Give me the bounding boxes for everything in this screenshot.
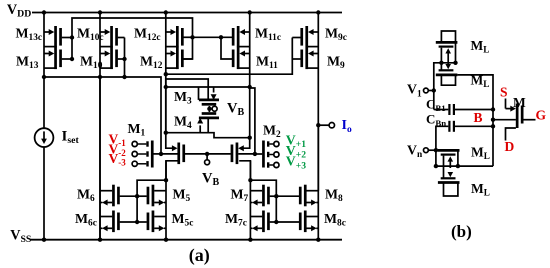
svg-text:V: V [202,171,213,187]
transistor ML2 [436,70,458,75]
junction ML gate row [439,61,443,65]
wire M11 gate drop [221,37,233,59]
terminal Io [329,123,334,128]
junction lower row mid [456,164,460,168]
junction M12c gate [190,35,194,39]
svg-text:(b): (b) [451,222,472,241]
caption (b) [451,222,472,241]
label M5 [173,186,191,204]
terminal VB [205,160,210,165]
junction VDD-M12c [164,10,168,14]
svg-text:8c: 8c [337,219,346,229]
junction Io [316,123,320,127]
transistor M13c [44,26,72,48]
svg-text:10c: 10c [90,33,104,43]
transistor M12c [166,26,183,48]
junction box top left [164,85,168,89]
capacitor CBn [436,121,493,150]
junction VDD-M11c [248,10,252,14]
label M [513,95,526,110]
junction VDD-M9c [316,10,320,14]
multi-input coupling plates M1 bulk [137,141,161,168]
svg-text:7: 7 [244,194,249,204]
wire M3/M4 gate tie [208,106,210,112]
svg-text:M: M [16,53,29,68]
svg-text:M: M [255,26,268,41]
label G [536,108,547,123]
label CBn [426,112,446,129]
transistor M3 [199,100,219,104]
junction VDD-M13c [42,10,46,14]
transistor M9c [292,26,318,48]
junction VSS-M6c [98,238,102,242]
wire ML2 diode loop [441,75,455,85]
junction node B - CBn [491,124,495,128]
label V1 [407,82,422,100]
wire ML3 drain leg [457,150,459,166]
wire Vn stub [428,149,441,151]
transistor M1 [161,143,207,165]
transistor M8c [276,211,318,233]
wire M12 source-drain rail [165,13,167,133]
label V+2 [286,143,306,161]
svg-text:M: M [75,211,88,226]
svg-text:M: M [172,211,185,226]
wire ML3/ML4 gate link [443,156,445,179]
svg-text:M: M [256,53,269,68]
svg-text:M: M [263,123,276,138]
svg-text:1: 1 [417,89,422,99]
svg-text:M: M [174,89,187,104]
wire M6 drain rail [99,77,101,240]
svg-text:6: 6 [90,194,95,204]
power rail VDD [32,12,342,14]
wire M5/M1 drain rail [165,161,167,240]
junction M7/M8 gates [274,194,278,198]
net label VSS [10,227,32,245]
capacitor CB1 [434,104,493,115]
transistor M8 [276,185,318,207]
label M2 [263,123,281,141]
wire M10 gate bus [124,38,126,78]
svg-text:4: 4 [187,121,192,131]
label M9c [325,26,347,44]
junction node B - bulk [491,118,495,122]
svg-text:G: G [536,108,547,123]
transistor M6 [100,185,137,207]
svg-text:M: M [77,26,90,41]
label ML1 [471,38,490,55]
svg-text:C: C [426,112,435,127]
svg-text:V: V [286,154,296,169]
junction node B - CB1 [491,107,495,111]
wire ML2 source arrow [447,63,449,65]
label M7 [231,186,249,204]
wire lower gate row [436,165,493,167]
svg-text:M: M [173,186,186,201]
label ML3 [471,145,490,162]
svg-text:M: M [513,95,526,110]
svg-text:11c: 11c [268,33,281,43]
wire box right side [249,87,251,138]
svg-text:9: 9 [340,61,345,71]
label ML2 [471,73,490,90]
terminal V1 [424,88,429,93]
wire M3 drain stub [198,87,200,100]
junction M7c/M8c gates [274,220,278,224]
svg-text:M: M [77,186,90,201]
svg-text:2: 2 [276,130,281,140]
label V+1 [286,132,306,150]
label node B [474,110,483,125]
wire mirror node (M13/M10 drains to M1 bulk) [44,77,161,154]
label M11 [256,53,278,71]
junction M2 source node [248,136,252,140]
wire M1 drain [166,161,178,180]
label M3 [174,89,192,107]
junction Vn node [434,148,438,152]
svg-text:6c: 6c [88,219,97,229]
wire M4 drain stub [207,118,209,133]
transistor M11c [233,26,250,48]
terminal Vn [424,148,429,153]
junction M10 gate bus to mirror node [122,75,126,79]
svg-text:12c: 12c [147,33,161,43]
label VB (box) [227,101,244,119]
wire M drain lead [506,128,516,141]
svg-text:n: n [417,150,423,160]
wire Iset to VSS [43,147,45,240]
label M10c [77,26,104,44]
label V+3 [286,154,306,172]
svg-text:B: B [237,107,244,118]
junction M2 bulk [253,152,257,156]
wire ML4 source arrow [449,166,451,168]
wire V1 stub [428,90,434,92]
svg-text:L: L [484,188,490,198]
svg-text:M: M [324,211,337,226]
terminal V+3 [274,162,279,167]
junction M9 gate bias to M12 drain [164,72,168,76]
junction M1/M5 drain [164,178,168,182]
label M9 [327,53,345,71]
svg-text:L: L [484,151,490,161]
wire M7/M2 drain rail [249,161,251,240]
wire VB terminal stub [206,154,208,160]
wire M13 gate bus [72,18,193,59]
junction VDD-M10c [98,10,102,14]
transistor ML1 [436,42,458,46]
multi-input coupling plates M2 bulk [255,141,279,168]
svg-text:7c: 7c [238,219,247,229]
svg-text:+1: +1 [296,139,306,150]
transistor M5c [137,211,166,233]
svg-text:B: B [474,110,483,125]
terminal V-3 [132,161,137,166]
wire M2 source jog from box [243,138,250,149]
svg-text:M: M [128,121,141,136]
wire M10 source-drain rail [99,13,101,240]
terminal V-2 [132,151,137,156]
terminal V-1 [132,141,137,146]
transistor M7c [250,211,276,233]
transistor M6c [100,211,137,233]
junction M13 gate [70,57,74,61]
svg-text:(a): (a) [189,245,210,266]
junction M5/M6 gates [135,194,139,198]
label M6c [75,211,97,229]
junction VB gate node [205,152,209,156]
svg-text:-3: -3 [118,158,126,168]
label M1 [128,121,146,139]
wire M8 drain rail [317,125,319,240]
junction VSS-Iset [42,238,46,242]
svg-text:10: 10 [93,61,103,71]
svg-text:12: 12 [153,61,163,71]
junction M11 gate tap [219,35,223,39]
junction M10 gate [122,57,126,61]
wire M1 source jog from box [166,133,173,149]
label S [500,85,508,100]
transistor ML3 [438,150,460,154]
junction M5c/M6c gates [135,220,139,224]
svg-text:S: S [500,85,508,100]
junction V1 [432,88,436,92]
wire M5/M6 gate column [137,180,166,222]
svg-text:M: M [16,26,29,41]
label M6 [77,186,95,204]
label M8 [325,186,343,204]
label VB [202,171,219,189]
wire Iset branch [43,77,45,128]
transistor M7 [250,185,276,207]
svg-text:V: V [407,143,417,158]
svg-text:9c: 9c [338,33,347,43]
svg-text:13: 13 [29,61,39,71]
svg-text:M: M [471,181,484,196]
label M12 [140,53,163,71]
junction VSS-M5c [164,238,168,242]
transistor M2 [207,143,255,165]
transistor M (bulk-driven symbol) [493,104,536,129]
svg-text:M: M [325,186,338,201]
svg-text:8: 8 [338,194,343,204]
svg-text:M: M [140,53,153,68]
junction box top right [248,85,252,89]
svg-text:M: M [231,186,244,201]
label Vn [407,143,423,161]
label M13 [16,53,39,71]
wire M12c gate stub [184,36,193,38]
svg-text:1: 1 [141,129,146,139]
transistor M10 [100,48,125,70]
svg-text:DD: DD [17,9,31,20]
svg-text:M: M [471,38,484,53]
label M7c [225,211,247,229]
svg-text:SS: SS [20,234,31,245]
svg-text:-2: -2 [118,148,126,158]
wire M2 drain [239,161,250,180]
label M4 [174,114,192,132]
svg-text:B: B [212,177,219,188]
svg-text:-1: -1 [118,138,126,148]
transistor M10c [100,26,125,48]
terminal Io wire [318,124,329,126]
wire M7/M8 gate column [250,180,276,222]
terminal VB (box) [212,106,217,111]
transistor M11 [233,48,250,70]
wire M2 bulk to box-top node [250,88,255,154]
label CB1 [426,97,446,114]
svg-text:M: M [80,53,93,68]
svg-text:L: L [483,45,489,55]
svg-text:M: M [174,114,187,129]
label ML4 [471,181,490,198]
label M10 [80,53,103,71]
current source Iset [35,128,54,147]
junction M2/M7 drain [248,178,252,182]
wire box left side [165,87,167,133]
svg-text:+3: +3 [296,160,306,171]
wire ML1/ML2 gate link [440,48,442,71]
label V-3 [109,151,127,168]
wire ML1 source arrow [447,54,449,63]
wire cascode gate link M12c-M11c [193,36,233,38]
junction M3/M4 gates [207,107,211,111]
wire box bottom [166,133,250,138]
wire V1 node row [434,63,457,110]
svg-text:M: M [471,145,484,160]
junction M1 bulk [159,152,163,156]
junction box bottom left [164,131,168,135]
transistor M5 [137,185,166,207]
wire M3 source arrow [213,87,215,93]
svg-text:M: M [325,26,338,41]
svg-text:M: M [327,53,340,68]
label Io [342,118,352,135]
svg-text:V: V [227,101,238,117]
transistor M12 [166,48,193,70]
svg-text:D: D [505,139,515,154]
svg-text:3: 3 [187,97,192,107]
wire M4 source arrow [199,125,201,132]
transistor M9 [292,48,318,70]
label M11c [255,26,281,44]
junction lower row left [434,164,438,168]
label M8c [324,211,346,229]
label Iset [62,128,80,146]
svg-text:Bn: Bn [435,118,446,128]
svg-text:M: M [225,211,238,226]
label M5c [172,211,194,229]
svg-text:13c: 13c [29,33,43,43]
svg-text:L: L [483,79,489,89]
wire M source lead [505,99,507,109]
junction VSS-M8c [316,238,320,242]
transistor M4 [199,114,219,118]
wire M9 gate bias line [166,38,292,75]
net label VDD [7,2,31,20]
junction mirror node M13 [42,75,46,79]
svg-text:o: o [347,125,352,135]
junction M13c gate [70,35,74,39]
wire M9 source-drain rail (output branch) [317,13,319,191]
wire M11 source-drain rail [249,13,251,88]
svg-text:V: V [407,82,417,97]
svg-text:11: 11 [269,61,278,71]
svg-text:5: 5 [186,194,191,204]
svg-text:V: V [109,151,119,166]
wire ML3 source arrow [449,162,451,167]
label M12c [134,26,161,44]
svg-text:B1: B1 [435,103,445,113]
junction ML1 drain [453,61,457,65]
label V-1 [109,132,127,149]
wire ML1 diode loop [441,31,455,63]
terminal V+1 [274,141,279,146]
terminal V+2 [274,152,279,157]
transistor ML4 [438,178,460,182]
label M13c [16,26,43,44]
svg-text:M: M [134,26,147,41]
svg-text:set: set [67,135,79,146]
svg-text:C: C [426,97,435,112]
wire Vn to lower row [435,150,437,166]
label D [505,139,515,154]
svg-text:5c: 5c [185,219,194,229]
wire box top (M12 drain node) [166,86,250,88]
wire box top detour to M3 bulk [166,79,208,100]
power rail VSS [31,239,343,241]
wire ML2 to node B [457,75,493,166]
junction mirror node M10 [98,75,102,79]
wire M13 source-drain rail [43,13,45,78]
wire ML4 diode loop [444,183,458,197]
label V-2 [109,141,127,158]
svg-text:+2: +2 [296,150,306,161]
caption (a) [189,245,210,266]
junction VSS-M7c [248,238,252,242]
transistor M13 [44,48,72,70]
